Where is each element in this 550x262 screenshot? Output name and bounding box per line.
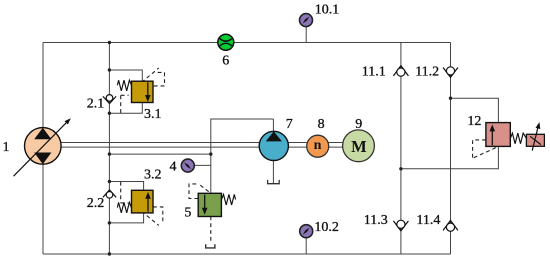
svg-text:11.4: 11.4 (416, 213, 440, 228)
pump 1 upper triangle (34, 128, 51, 140)
node mid-vert / bottom rail (108, 252, 111, 255)
wire shaft double line sensor8 to motor9 (328, 143, 342, 148)
svg-text:8: 8 (318, 117, 325, 132)
wire left vertical lower (pump bottom port to bottom rail) (42, 164, 44, 254)
pressure gauge 4 (181, 159, 194, 172)
node valve 12 return tap (399, 167, 402, 170)
wire valve 3.2 inlet (109, 182, 143, 191)
relief valve 3.1 (132, 81, 154, 102)
svg-text:11.1: 11.1 (362, 64, 386, 79)
electric motor 9 (343, 130, 375, 162)
svg-text:11.2: 11.2 (415, 64, 439, 79)
tank symbol below valve 5 (206, 244, 215, 248)
wire pump 7 suction drain (272, 160, 274, 183)
svg-text:3.2: 3.2 (144, 167, 162, 182)
spring of valve 5 (221, 194, 235, 205)
svg-text:10.2: 10.2 (314, 220, 339, 235)
node charge branch right (209, 152, 212, 155)
check valve 11.1 (393, 66, 408, 76)
flow meter 6 (218, 34, 234, 50)
svg-text:11.3: 11.3 (364, 213, 388, 228)
node 3.1 outlet branch (108, 112, 111, 115)
check valve 11.2 (443, 68, 458, 78)
wire mid vertical (valve manifold line) (108, 43, 110, 255)
svg-text:M: M (351, 137, 367, 156)
svg-text:1: 1 (3, 140, 10, 155)
tank symbol below pump 7 (268, 180, 280, 184)
wire right vertical A (check valves 11.1/11.3) (400, 43, 402, 255)
check valve 11.4 (443, 220, 458, 230)
wire shaft double line pump7 to sensor8 (288, 143, 306, 148)
pump 1 lower triangle (34, 153, 51, 165)
svg-text:3.1: 3.1 (144, 107, 162, 122)
valve 3.2 adjustment diagonal (142, 211, 159, 225)
wire top rail (43, 42, 451, 44)
wire right vertical B (check valves 11.2/11.4) (450, 43, 452, 255)
valve 3.1 pilot line (121, 95, 129, 113)
wire boost pump outlet line (211, 119, 274, 193)
node charge branch left (108, 152, 111, 155)
node 3.2 inlet branch (108, 180, 111, 183)
wire left vertical upper (pump top port to top rail) (42, 43, 44, 128)
pump 1 variable arrow (14, 122, 68, 177)
svg-text:12: 12 (467, 114, 481, 129)
wire valve 12 feed (451, 98, 499, 122)
pressure gauge 10.1 (300, 14, 313, 27)
spring of valve 12 (510, 133, 526, 144)
node 3.1 inlet branch (108, 68, 111, 71)
svg-text:2.1: 2.1 (87, 96, 105, 111)
pressure gauge 10.2 (300, 225, 313, 238)
node mid-vert / top rail (108, 41, 111, 44)
wire gauge 4 link (194, 164, 211, 166)
svg-text:2.2: 2.2 (87, 196, 105, 211)
wire gauge 10.2 stem (305, 238, 307, 254)
check valve 11.3 (393, 221, 408, 231)
boost pump 7 (259, 131, 288, 160)
wire valve 3.1 inlet (109, 70, 142, 81)
proportional solenoid of valve 12 (526, 134, 544, 146)
speed sensor 8 (307, 135, 329, 157)
spring of valve 3.1 (117, 80, 131, 91)
node 3.2 outlet branch (108, 221, 111, 224)
svg-text:5: 5 (184, 205, 191, 220)
wire valve 12 return (401, 146, 499, 168)
wire charge line (109, 153, 210, 155)
wire gauge 10.1 stem (305, 26, 307, 42)
svg-text:9: 9 (355, 117, 362, 132)
svg-text:6: 6 (222, 53, 229, 68)
wire shaft double line pump1 to pump7 (61, 143, 259, 148)
spring of valve 3.2 (117, 202, 131, 213)
relief valve 12 (486, 123, 510, 147)
pump 1 (variable displacement) (25, 128, 62, 165)
valve 12 pilot line (473, 140, 497, 159)
check valve 2.1 (103, 96, 116, 103)
svg-text:n: n (314, 138, 322, 153)
charge relief valve 5 (198, 193, 221, 216)
valve 3.1 adjustment diagonal (142, 68, 159, 82)
relief valve 3.2 (132, 190, 154, 213)
valve 3.2 pilot line (121, 182, 129, 203)
wire bottom rail (43, 253, 451, 255)
wire valve 3.1 outlet (109, 103, 142, 114)
valve 5 drain line (210, 217, 212, 244)
valve 3.1 control flag (153, 72, 165, 86)
wire valve 3.2 outlet (109, 213, 143, 223)
pilot dashed lines (121, 68, 497, 244)
svg-text:4: 4 (170, 159, 177, 174)
svg-text:10.1: 10.1 (315, 3, 340, 18)
valve 3.2 control flag (153, 207, 163, 223)
valve 5 pilot line (189, 184, 210, 199)
node valve 12 feed tap (449, 97, 452, 100)
svg-text:7: 7 (286, 117, 293, 132)
check valve 2.2 (103, 190, 116, 197)
